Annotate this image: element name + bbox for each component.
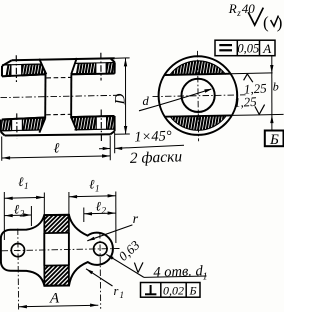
svg-text:z: z [236,8,241,18]
bottom view: hub square bottom [44,265,69,286]
svg-text:2: 2 [102,206,107,216]
roughness tick upper [244,74,248,80]
dimension b arrow upper [270,65,273,73]
dimension l1 right line [69,195,116,198]
end view: horizontal centerline [153,95,246,97]
datum box B [265,131,284,147]
svg-text:1: 1 [24,181,29,191]
bottom view: hatch hub bottom [16,261,105,290]
front view: right edge of top flange [114,62,116,73]
svg-text:(: ( [263,13,269,32]
front view: hatch top-left flange [0,50,69,150]
svg-text:А: А [49,291,60,307]
front view: hole edge lines top-left [10,65,12,77]
leader d line [139,89,211,111]
end view: vertical centerline [198,51,199,141]
dimension l1l2 right extension [115,192,117,244]
bottom view: left hole [11,244,24,257]
svg-text:А: А [262,41,271,56]
front view: top flange rim line left [2,63,41,66]
roughness check mark [248,8,263,26]
front view: hole gap bottom-right [96,116,106,130]
dimension D arrow top [124,58,127,66]
front view: hole axis bottom-left [16,113,18,138]
leader d arrow [204,89,212,93]
front view: hole axis top-right [100,53,102,81]
front view: bottom-left chamfer edge [1,132,5,136]
bottom view: hub side edges between squares [43,233,45,266]
end view: rim arc top [170,61,225,75]
dimension l1 right ext left [68,192,70,215]
front view: hatch top-right flange [64,50,139,150]
end view: hatch bottom segment [154,50,258,150]
svg-text:0,05: 0,05 [237,41,259,55]
front view: top flange slant right [71,58,77,74]
front view: hidden hole line upper [46,76,71,79]
front view: hole edge lines bottom-right [95,116,97,129]
bottom view: left hole axis [17,229,20,310]
svg-text:): ) [277,13,283,32]
leader 4otv line [106,254,143,277]
svg-text:0,02: 0,02 [163,283,184,297]
front view: hole gap top-left [11,63,22,77]
svg-text:Б: Б [269,132,279,148]
front view: hatch bottom-left flange [0,50,69,150]
bottom view: hub square top [44,215,69,233]
front view: bottom flange inner edge left [2,118,46,120]
front view: hole axis bottom-right [100,110,102,144]
front view: left edge of top flange [1,66,3,76]
svg-text:d: d [143,94,150,108]
svg-text:1,25: 1,25 [234,94,258,110]
svg-text:r: r [114,284,119,298]
parallelism symbol [219,44,232,46]
leader r1 arrow [86,269,93,274]
dimension l1 left line [5,196,45,199]
dimension b arrow lower [270,115,273,123]
bottom view: right hole axis [99,232,102,309]
dimension l1 left ext right [43,193,45,216]
leader r arrow [87,237,95,241]
bottom view: hatch hub top [18,211,100,237]
end view: outer circle [159,56,238,135]
front view: hole edge lines bottom-left [11,119,13,131]
bottom view: part outline [1,215,113,286]
svg-text:D: D [113,94,129,106]
front view: hole axis top-left [15,55,17,82]
dimension l line [2,156,110,158]
svg-text:ℓ: ℓ [54,142,60,157]
roughness tick 0,63 [134,263,138,273]
front view: right edge of bottom flange [114,116,116,131]
svg-text:b: b [273,80,279,94]
dimension l1 left extension [3,192,5,240]
dimension l extension right [109,136,111,161]
chamfer extension line [114,133,116,154]
front view: outer bottom edge [5,134,111,135]
front view: bottom-right chamfer edge [110,131,114,134]
svg-text:R: R [228,1,237,16]
svg-text:1: 1 [120,290,125,300]
svg-text:1: 1 [95,184,100,194]
front view: hidden hole line lower [46,113,72,116]
front view: top flange rim line right [75,62,115,65]
front view: hole gap bottom-left [12,118,23,131]
front view: horizontal centerline [1,95,122,97]
dimension l2 left extension [30,206,32,226]
leader r1 line [86,269,113,286]
front view: top-left chamfer edge [2,60,12,66]
end view: hatch top segment [154,50,258,150]
front view: outer top edge with D extension [12,58,115,60]
front view: bottom flange slant right [71,117,77,130]
perpendicularity symbol [150,285,152,294]
front view: top flange inner edge right [71,73,114,76]
leader 4otv arrow [106,254,113,259]
dimension l2 right ext left [83,208,85,223]
svg-text:1: 1 [203,272,208,283]
bottom view: horizontal centerline [2,249,120,251]
front view: bottom flange inner edge right [71,116,114,117]
svg-text:2 фаски: 2 фаски [130,148,183,167]
dimension D line [125,58,127,134]
svg-text:4 отв. d: 4 отв. d [153,263,204,281]
svg-text:1×45°: 1×45° [134,128,172,145]
leader r line [87,225,132,241]
front view: barrel left edge [44,74,46,118]
front view: flange edge overlay bottom [2,118,46,120]
dimension l arrow left [2,156,10,159]
front view: top-right chamfer edge [110,58,114,62]
dimension l arrow right [102,154,110,157]
front view: flange edge overlay top [2,74,46,76]
end view: top chord edge [165,74,231,75]
front view: top flange slant left [39,59,46,75]
dimension l2 right line [84,212,116,215]
front view: bottom edge extension to D [115,133,130,135]
dimension D arrow bottom [124,126,127,134]
bottom view: right hole d1 [94,242,107,255]
front view: bottom flange rim line right [75,128,115,131]
svg-text:Б: Б [188,284,196,298]
dimension l extension left [1,137,3,161]
dimension l2 left line [5,214,32,217]
tolerance frame bottom [141,283,201,298]
end view: rim arc bottom [170,116,226,130]
front view: bottom flange rim line left [1,129,41,132]
chamfer dim arrow right and shelf [115,147,123,150]
end view: bottom chord edge [165,115,231,116]
front view: left edge of bottom flange [0,120,2,132]
front view: bottom flange slant left [39,118,45,133]
end view: inner circle (hole d) [182,79,215,112]
tolerance frame top [215,40,275,56]
dimension A line [19,305,99,307]
roughness tick lower [255,106,259,114]
front view: top flange inner edge left [2,74,46,76]
dimension b line [271,56,273,131]
svg-text:r: r [133,212,139,227]
front view: hole gap top-right [96,62,106,75]
front view: hatch bottom-right flange [64,50,139,150]
chamfer dim arrow left [103,147,111,150]
front view: hole edge lines top-right [95,63,97,74]
front view: barrel right edge [70,74,72,118]
svg-text:2: 2 [20,209,25,219]
